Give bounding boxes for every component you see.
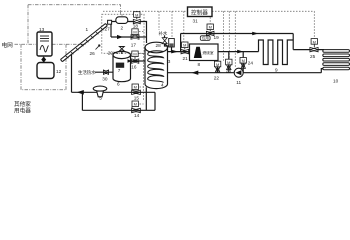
svg-text:6: 6 xyxy=(117,81,120,86)
svg-text:M: M xyxy=(242,58,245,63)
svg-text:1: 1 xyxy=(86,27,89,32)
svg-text:9: 9 xyxy=(275,67,278,72)
svg-text:13: 13 xyxy=(39,27,45,32)
svg-text:M: M xyxy=(134,102,137,107)
svg-text:31: 31 xyxy=(193,18,199,23)
svg-text:10: 10 xyxy=(333,78,339,83)
svg-text:3: 3 xyxy=(168,59,171,64)
svg-text:24: 24 xyxy=(248,60,254,65)
svg-text:18: 18 xyxy=(133,23,139,28)
svg-text:11: 11 xyxy=(236,80,241,85)
svg-text:M: M xyxy=(209,25,212,30)
svg-text:2: 2 xyxy=(121,25,124,30)
svg-text:27: 27 xyxy=(105,26,111,31)
svg-text:M: M xyxy=(227,60,230,65)
svg-text:30: 30 xyxy=(102,76,108,81)
svg-text:21: 21 xyxy=(183,56,189,61)
svg-text:4: 4 xyxy=(161,82,164,87)
svg-text:7: 7 xyxy=(118,68,121,73)
svg-text:M: M xyxy=(134,85,137,90)
svg-text:生活热水: 生活热水 xyxy=(78,69,96,76)
svg-text:M: M xyxy=(135,12,138,17)
svg-text:控制器: 控制器 xyxy=(191,8,208,16)
svg-text:燃烧室: 燃烧室 xyxy=(203,50,214,55)
svg-text:15: 15 xyxy=(134,95,140,100)
svg-text:26: 26 xyxy=(90,51,96,56)
svg-text:12: 12 xyxy=(56,69,62,74)
svg-text:17: 17 xyxy=(131,42,137,47)
svg-text:电网: 电网 xyxy=(2,41,14,49)
svg-text:25: 25 xyxy=(310,54,316,59)
svg-text:M: M xyxy=(183,43,186,48)
svg-text:其他家: 其他家 xyxy=(14,100,31,108)
svg-text:28: 28 xyxy=(156,43,162,48)
svg-text:补水: 补水 xyxy=(159,30,168,37)
svg-text:M: M xyxy=(216,62,219,67)
svg-text:23: 23 xyxy=(226,68,232,73)
svg-text:16: 16 xyxy=(131,64,137,69)
svg-text:14: 14 xyxy=(134,113,140,118)
svg-text:8: 8 xyxy=(198,62,201,67)
svg-text:19: 19 xyxy=(214,35,220,40)
svg-text:M: M xyxy=(313,39,316,44)
svg-text:M: M xyxy=(133,30,136,35)
svg-text:M: M xyxy=(133,52,136,57)
svg-text:用电器: 用电器 xyxy=(14,106,31,114)
svg-text:5: 5 xyxy=(99,96,102,101)
svg-text:29: 29 xyxy=(108,50,114,55)
svg-text:仅用: 仅用 xyxy=(202,36,209,41)
svg-text:22: 22 xyxy=(214,75,220,80)
